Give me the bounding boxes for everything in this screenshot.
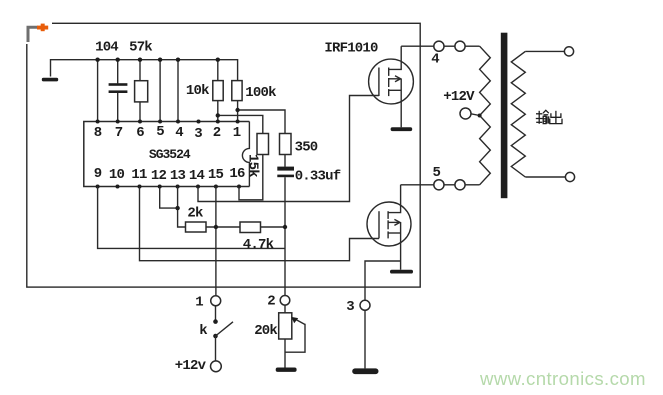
svg-text:www.cntronics.com: www.cntronics.com	[479, 368, 646, 389]
resistor 350	[280, 134, 292, 167]
+12v input terminal	[211, 361, 222, 372]
svg-text:0.33uf: 0.33uf	[295, 169, 341, 185]
label 输出 (output)	[536, 110, 562, 124]
svg-text:4: 4	[175, 125, 183, 141]
svg-text:9: 9	[94, 166, 102, 182]
wire pin1 node to 350	[238, 110, 285, 134]
svg-text:3: 3	[194, 126, 202, 142]
resistor 100k	[232, 81, 242, 122]
svg-text:15: 15	[208, 167, 224, 183]
svg-text:k: k	[199, 323, 207, 339]
svg-text:104: 104	[95, 40, 118, 56]
op-amp U1 SG3524 body	[84, 122, 250, 187]
svg-text:IRF1010: IRF1010	[324, 41, 378, 57]
svg-text:8: 8	[94, 125, 102, 141]
top supply bus wire	[51, 60, 238, 81]
transformer T1 secondary winding	[511, 51, 525, 177]
svg-text:350: 350	[295, 140, 318, 156]
resistor 4.7k	[240, 222, 261, 233]
wire Q1 drain to terminal 4	[401, 45, 434, 47]
wire pin4 to bus	[177, 60, 179, 122]
svg-text:16: 16	[229, 166, 245, 182]
wire pin2 node to 15k	[218, 115, 263, 133]
transistor Q1 IRF1010 (upper MOSFET)	[369, 46, 414, 127]
resistor 57k	[135, 60, 148, 122]
transformer core	[501, 33, 508, 199]
potentiometer 20k	[279, 305, 305, 367]
svg-text:10: 10	[109, 167, 125, 183]
terminal 4 connector circles	[434, 41, 444, 51]
pin dots top edge	[96, 120, 240, 124]
wire 4.7k to cap node	[261, 226, 286, 228]
wire pin11 to lower gate	[140, 187, 380, 261]
terminal 2	[280, 296, 290, 306]
wire pins12+13 join	[160, 187, 178, 209]
capacitor C1 104	[109, 60, 128, 122]
svg-text:6: 6	[136, 125, 144, 141]
terminal 5 connector circles	[434, 180, 444, 190]
svg-text:4.7k: 4.7k	[243, 237, 274, 253]
svg-text:5: 5	[432, 165, 440, 181]
wire node to 2k	[178, 208, 186, 227]
resistor 10k	[213, 60, 223, 122]
transistor Q2 (lower MOSFET)	[367, 185, 411, 270]
pin numbers top row	[94, 124, 241, 142]
secondary bottom lead and terminal	[525, 176, 565, 178]
ground (Q1 source)	[391, 127, 413, 131]
wire pin8 to bus	[97, 60, 99, 122]
resistor 15k	[239, 134, 269, 200]
wire pin9 to node	[98, 187, 285, 249]
switch k	[213, 306, 233, 361]
pin dots bottom edge	[96, 185, 241, 189]
svg-text:15k: 15k	[245, 154, 261, 177]
svg-text:7: 7	[115, 125, 123, 141]
svg-text:1: 1	[233, 125, 241, 141]
svg-text:SG3524: SG3524	[149, 147, 191, 162]
wire terminal 3 to ground	[364, 310, 366, 368]
outer border box	[27, 23, 420, 287]
ground (top-left bus)	[42, 78, 58, 82]
svg-text:20k: 20k	[254, 323, 277, 339]
corner watermark icon	[22, 18, 52, 44]
svg-text:+12v: +12v	[175, 358, 207, 374]
svg-text:2k: 2k	[187, 206, 203, 222]
svg-text:12: 12	[151, 168, 167, 184]
svg-text:11: 11	[131, 167, 147, 183]
svg-text:10k: 10k	[186, 83, 209, 99]
svg-text:2: 2	[213, 125, 221, 141]
secondary top lead and terminal	[525, 50, 564, 52]
svg-text:14: 14	[189, 168, 205, 184]
svg-text:4: 4	[431, 52, 439, 68]
transformer T1 primary winding	[480, 46, 491, 185]
capacitor 0.33uf	[277, 167, 294, 296]
wire Q2 drain to terminal 5	[401, 184, 434, 186]
terminal 3	[360, 300, 370, 310]
svg-text:100k: 100k	[245, 85, 276, 101]
junction dots	[95, 58, 287, 230]
resistor 2k	[186, 222, 207, 232]
ground (pot)	[276, 368, 297, 372]
pin numbers bottom row	[94, 166, 245, 184]
svg-text:5: 5	[156, 124, 164, 140]
svg-text:+12V: +12V	[443, 89, 475, 105]
svg-text:3: 3	[346, 299, 354, 315]
ground (Q2 source)	[390, 270, 413, 274]
terminal 1	[211, 296, 221, 306]
wire pin15 down to terminal 1	[215, 187, 217, 296]
svg-text:57k: 57k	[129, 40, 152, 56]
wire 2k to 4.7k	[206, 226, 240, 228]
svg-text:13: 13	[170, 168, 186, 184]
wire pin14 to upper gate	[198, 96, 379, 202]
wire Q2 source to terminal 3	[365, 261, 401, 300]
svg-text:1: 1	[195, 295, 203, 311]
ground (terminal 3)	[352, 368, 378, 374]
svg-text:2: 2	[267, 294, 275, 310]
+12V center tap terminal	[460, 108, 482, 119]
wire pin5 to bus	[159, 60, 161, 122]
